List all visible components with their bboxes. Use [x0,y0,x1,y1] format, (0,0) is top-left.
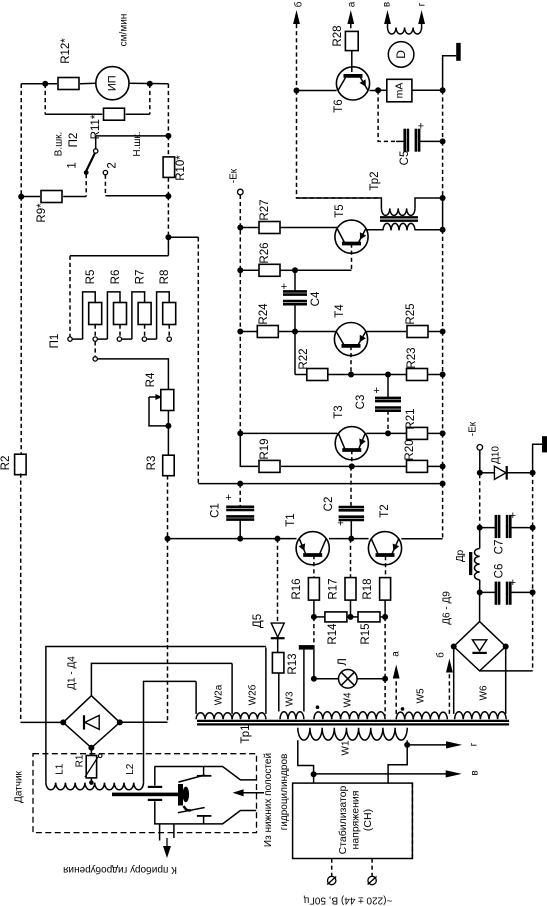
wire rail dashed Tr2 to R25 [442,230,444,332]
node R4 bottom [165,423,171,429]
wire corner to bridge right vertex [122,721,168,723]
potentiometer R4 wiper arrow [149,396,158,398]
resistor R20 [407,460,428,472]
svg-text:Тр1: Тр1 [240,724,252,743]
wire bridge top to C6 node [479,592,481,621]
svg-text:Тр2: Тр2 [369,171,381,190]
svg-text:W2а: W2а [214,684,225,705]
svg-text:R26: R26 [259,242,271,263]
bridge D1-D4 [63,696,120,748]
svg-text:+: + [337,518,343,530]
svg-text:а: а [347,1,358,7]
arrow a top [347,10,354,24]
heater coil top [388,28,422,35]
wire rail dashed R20 to long line [442,466,444,483]
svg-text:Д10: Д10 [491,446,502,464]
wire Tr2 winding2 right lead [415,229,443,231]
svg-text:W6: W6 [479,685,490,700]
resistor R18 [380,578,391,601]
wire C3 node to R23 [388,374,406,376]
svg-text:R8: R8 [159,270,171,285]
wire R25 to rail [428,331,443,333]
resistor R17 [345,578,356,601]
svg-text:Т3: Т3 [333,405,345,418]
left rail dashed from top corner [20,84,22,197]
resistor R7 [138,303,151,325]
node rail R24 row [237,329,243,335]
choke Dr winding [474,549,479,580]
wire R14 right [347,616,351,618]
wire AC terminal 2 dashed [371,859,373,877]
node bridge bottom vertex D1 [88,745,94,751]
transformer Tr1 winding W1 [298,728,407,740]
wire junction to T5 base stem [295,269,352,271]
lamp L [339,670,358,689]
wire AC terminal 1 dashed [331,859,333,877]
wire junction to T4 [295,331,337,333]
wire R3 down dashed to T1 row [167,475,169,538]
wire base row to R20 [352,465,406,467]
resistor R26 [259,264,280,276]
switch P1 wiper contact [93,357,97,361]
diode D5 [271,623,284,637]
node rail long line [440,481,446,487]
wire R8 top hook [157,292,170,339]
valve upper lever stub [203,767,205,776]
choke Dr core bar [469,552,472,575]
resistor R11 [104,108,125,120]
capacitor C2 bottom stem [350,520,352,539]
wire X198 dashed down [197,237,199,483]
terminal AC 2 [368,876,376,884]
wire mA to rail [412,89,443,91]
valve rod black [112,793,178,797]
wire C7 rail dashed [532,528,534,593]
wire node to R21 [388,432,406,434]
resistor R10* [163,157,175,178]
wire meter to corner [129,82,168,85]
wire C4 bottom stem [294,304,296,332]
wire R10 node down to branch node [167,196,169,237]
arrow v right [314,773,446,775]
svg-text:W4: W4 [343,692,354,707]
svg-text:L2: L2 [125,763,136,775]
wire rail dashed C5 to Tr2 [442,141,444,197]
wire D10 rail dashed [532,473,534,528]
wire R16 to row [313,600,315,617]
resistor R2 [15,454,27,475]
transformer Tr1 winding W5 [396,712,447,719]
svg-text:R16: R16 [291,578,303,599]
svg-text:а: а [391,651,402,657]
svg-text:R19: R19 [259,438,271,459]
node emitters C2 [348,536,354,542]
wire R1 to coil tap [90,778,92,783]
wire arrow b from W5 right [448,674,450,714]
wire D10 to C7 left dashed [479,474,481,528]
node rail T3 row [237,430,243,436]
node branch to P1 and long line [165,234,171,240]
node rail R20 [440,463,446,469]
valve flapper bar [178,784,183,806]
svg-text:Из нижних полостей: Из нижних полостей [263,753,274,847]
node lamp row right [382,676,388,682]
wire W4 right dashed down [384,617,386,679]
thermistor R1 [90,748,92,756]
arrow a lower [393,665,400,679]
wire R5 top hook [83,292,96,339]
node D5 branch [275,536,281,542]
wire R23 to rail [428,374,443,376]
wire R6 top hook [107,292,120,339]
svg-text:Т1: Т1 [285,513,297,526]
wire R18 to row [384,600,386,617]
wire T2 base stem dashed [385,556,387,578]
wire column down dashed to bridge corner [167,539,169,723]
svg-text:R7: R7 [134,270,146,285]
wire b arrow dashed down to node [296,24,298,91]
wire R20 to rail [428,465,443,467]
wire T4 emitter to R25 [366,331,406,333]
valve upper lever bar [197,775,212,777]
wire R11 shunt left leg [44,84,46,114]
wire P2 row [96,135,169,137]
node C1 top [237,481,243,487]
wire a arrow to R28 dashed [350,24,352,31]
node C3 bottom [385,430,391,436]
transformer Tr1 winding W3 [280,712,304,720]
node C7 right [530,525,536,531]
switch P2 contact 1 [84,170,89,175]
wire Tr2 winding1 right lead [415,198,443,208]
wire Tr2 winding1 left lead [297,198,382,208]
switch P2 arm [86,153,95,171]
svg-text:~(220 ± 44) В, 50Гц: ~(220 ± 44) В, 50Гц [303,895,392,906]
wire -Ek to D10 node [479,450,481,473]
node g arrow start [404,742,410,748]
wire rail corner to bridge left vertex [21,721,64,723]
wire L1 left to W2b line [46,647,266,783]
svg-text:Т2: Т2 [379,504,391,517]
capacitor C2 [339,506,365,509]
wire R11 shunt right leg [149,84,151,114]
svg-text:+: + [281,281,287,293]
node P2 row right [165,133,171,139]
resistor R15 [358,612,380,622]
valve nozzle plate upper [148,786,162,788]
wire lamp row left [314,678,339,680]
valve lower channel [175,811,257,824]
valve drain left [159,824,161,841]
svg-text:R14: R14 [327,623,339,645]
wire branch corner to X198 [168,236,198,238]
wire R21 to rail [428,432,443,434]
wire rail dashed R25 to R23 [442,332,444,375]
arrow g top [418,10,425,24]
svg-text:С6: С6 [494,564,506,579]
svg-text:R21: R21 [405,408,417,429]
svg-text:в: в [470,770,481,775]
transformer Tr1 winding W6 [455,712,507,720]
wire W6 right lead [505,647,507,714]
wire W2 center lead [231,663,233,714]
chassis bar right edge [542,436,547,452]
svg-text:С1: С1 [210,503,222,518]
node rail R9 row [18,194,24,200]
transistor T4 [334,323,367,356]
resistor R12* [58,78,79,90]
switch P1 contact 3 [117,337,121,341]
svg-text:R18: R18 [362,578,374,599]
node T6 emitter [375,87,381,93]
wire P1 contact 3 jog [122,338,132,340]
potentiometer R4 [161,390,174,411]
valve lower lever bar [197,815,212,817]
arrow b top [293,10,300,24]
capacitor C3 [387,375,389,399]
wire bar to lamp row [313,650,315,679]
wire R14 left [314,616,325,618]
switch P1 contact 4 [142,337,146,341]
svg-text:+: + [510,577,516,589]
node C1 bottom [237,536,243,542]
right meter rail top dashed [167,84,169,136]
node coil center tap [89,780,94,785]
svg-text:С4: С4 [310,291,322,306]
node bridge right vertex [503,644,509,650]
arrow v top [384,10,391,24]
arrow b lower [446,659,453,673]
svg-text:(СН): (СН) [362,809,374,831]
wire W1 left lead [298,740,314,774]
svg-text:Л: Л [337,658,349,666]
svg-text:R17: R17 [328,578,340,599]
valve nozzle plate lower [148,799,162,801]
svg-text:D: D [394,50,408,59]
resistor R21 [407,427,428,439]
wire contact1 down to R9 row [85,174,87,197]
node D10 left [477,470,483,476]
transformer Tr2 winding 1 [381,208,415,215]
node T4 base row [348,372,354,378]
wire R8 bottom stem [168,325,170,337]
node T1 row left end [165,536,171,542]
wire -Ek rail dashed [239,195,241,434]
transformer Tr1 winding W2a [196,713,232,720]
node C3 top [385,372,391,378]
svg-text:Др: Др [455,549,466,562]
wire T1 emitter to node [329,538,351,540]
node R18 row [382,614,388,620]
svg-text:R25: R25 [405,303,417,324]
svg-text:2: 2 [106,162,118,168]
wire node to R3 [167,426,169,456]
terminal -Ek right [477,445,483,451]
wire R10 to node [167,178,169,197]
svg-text:б: б [435,652,447,658]
svg-text:П2: П2 [68,133,80,148]
capacitor C2 top stem dashed [350,466,352,507]
wire T5 base stem dashed [351,244,353,271]
wire P1 contact 2 jog [97,338,107,340]
svg-text:R24: R24 [258,303,270,325]
resistor R16 [308,578,319,601]
wire P2 node to R10 [167,136,169,157]
wire P1 wiper stem dashed [94,341,96,356]
wire P1 feed drop dashed [69,256,71,337]
wire to C5 [396,140,405,142]
wire R7 top hook [132,292,145,339]
wire node to mA [378,89,387,91]
valve lower lever stub [203,816,205,824]
valve left wall lower [155,801,175,824]
sensor box dashed [33,754,257,833]
wire T6 emitter to node [370,90,379,92]
switch P2 common contact [94,149,98,153]
wire R15 left [351,616,359,618]
switch P2 contact 2 [103,170,107,174]
wire T2 right lead to rail [401,538,442,540]
wire long line Y484 [198,483,442,485]
svg-text:R23: R23 [406,347,418,368]
node rail R27 row [237,225,243,231]
svg-text:К прибору гидробурения: К прибору гидробурения [63,864,177,876]
wire b node to T6 [297,90,337,92]
node rail R21 [440,430,446,436]
svg-text:R12*: R12* [60,38,72,64]
wire lamp row right [357,678,385,680]
wire W1 right into box [388,745,407,783]
wire D10 right [507,472,533,474]
meter IP circle [96,67,129,100]
wire W1 left into box [313,774,315,783]
svg-text:+: + [225,492,231,504]
switch P1 contact 5 [167,337,171,341]
left rail dashed to R2 [20,197,22,456]
wire rail dashed to T2 corner [442,484,444,539]
capacitor C6 [480,591,496,593]
wire rail dashed R23 to R21 [442,375,444,434]
switch P1 contact 2 [93,337,97,341]
transistor T5 [335,220,368,253]
switch P1 contact 1 [68,337,72,341]
resistor R8 [163,303,176,325]
wire P1 feed row [70,255,168,257]
wire contact2 down [104,175,106,196]
resistor R23 [407,369,428,381]
node T3 base row [349,463,355,469]
svg-text:R28: R28 [332,25,344,46]
svg-text:R2: R2 [0,456,12,471]
wire top row left rail corner to R12 [21,83,57,85]
wire branch down to P1 feed [167,237,169,255]
wire node to T2 [351,538,368,540]
wire T1 node down dashed [313,617,315,645]
wire R26 row [240,269,258,271]
svg-text:в: в [382,2,393,7]
wire D5 to R13 [277,638,279,652]
svg-text:Д6 - Д9: Д6 - Д9 [442,591,453,625]
wire W1 right lead [406,740,408,745]
wire T3 emitter to C3 node [366,432,388,434]
wire choke top [479,529,481,549]
svg-text:С3: С3 [355,395,367,410]
stabilizer box [293,783,413,858]
wire T1 row [168,538,297,540]
thermistor R1 slash [85,757,98,777]
svg-text:W2б: W2б [247,684,259,705]
wire P1 contact 1 jog [72,338,82,340]
svg-text:R13: R13 [287,653,299,674]
wire rail to chassis bar right [533,444,542,473]
node left of R12 [42,81,48,87]
wire rail dashed mA to C5 [442,90,444,141]
svg-text:R10*: R10* [175,155,187,181]
capacitor C1 [226,505,254,508]
resistor R27 [259,222,280,234]
svg-text:R3: R3 [146,456,158,471]
svg-text:Д5: Д5 [252,614,264,628]
svg-text:-Ек: -Ек [229,168,240,183]
node rail R23 [440,372,446,378]
left rail dashed R2 to bridge [20,473,22,722]
wire C3 bottom dashed [387,411,389,434]
wire R6 bottom stem [119,325,121,337]
wire R12 to meter [80,82,96,85]
svg-text:R5: R5 [85,270,97,285]
svg-text:R27: R27 [259,199,271,220]
capacitor C7 [480,527,496,529]
resistor R13 [272,653,284,674]
resistor R28 [345,31,358,50]
svg-text:С7: С7 [494,540,506,555]
wire R4 to node [167,411,169,426]
wire P1 wiper row to R4 column [97,359,168,390]
node C7 left [477,525,483,531]
node C6 left [477,589,483,595]
wire C5 to rail [419,140,443,142]
svg-text:г: г [417,2,428,6]
meter mA box [387,79,412,102]
svg-text:R15: R15 [360,623,372,644]
connector D circle [388,42,414,68]
wire right rail top corner [443,56,457,91]
node lamp row left [311,676,317,682]
wire P2 row drop to common contact [95,136,97,149]
transistor T1 [296,532,329,565]
valve flapper tail [184,806,192,811]
wire R19 row [257,465,260,467]
svg-text:Т5: Т5 [334,204,346,217]
node rail C5 row [440,138,446,144]
svg-text:R9*: R9* [36,203,48,223]
svg-text:см/мин: см/мин [119,14,130,47]
wire R15 right [380,616,386,618]
wire W6 left lead [453,647,455,714]
node R17 row [348,614,354,620]
svg-text:В.шк.: В.шк. [54,132,65,157]
svg-text:1: 1 [66,162,78,168]
wire T3 base stem dashed [351,450,353,466]
node R10 bottom [165,193,171,199]
node right of meter [147,81,153,87]
node rail R25 [440,329,446,335]
svg-text:С2: С2 [323,497,335,512]
wire rail Tr2 solid [442,198,444,230]
transistor T2 [368,532,401,565]
diode D10 [480,472,494,474]
wire v to coil [387,24,389,28]
